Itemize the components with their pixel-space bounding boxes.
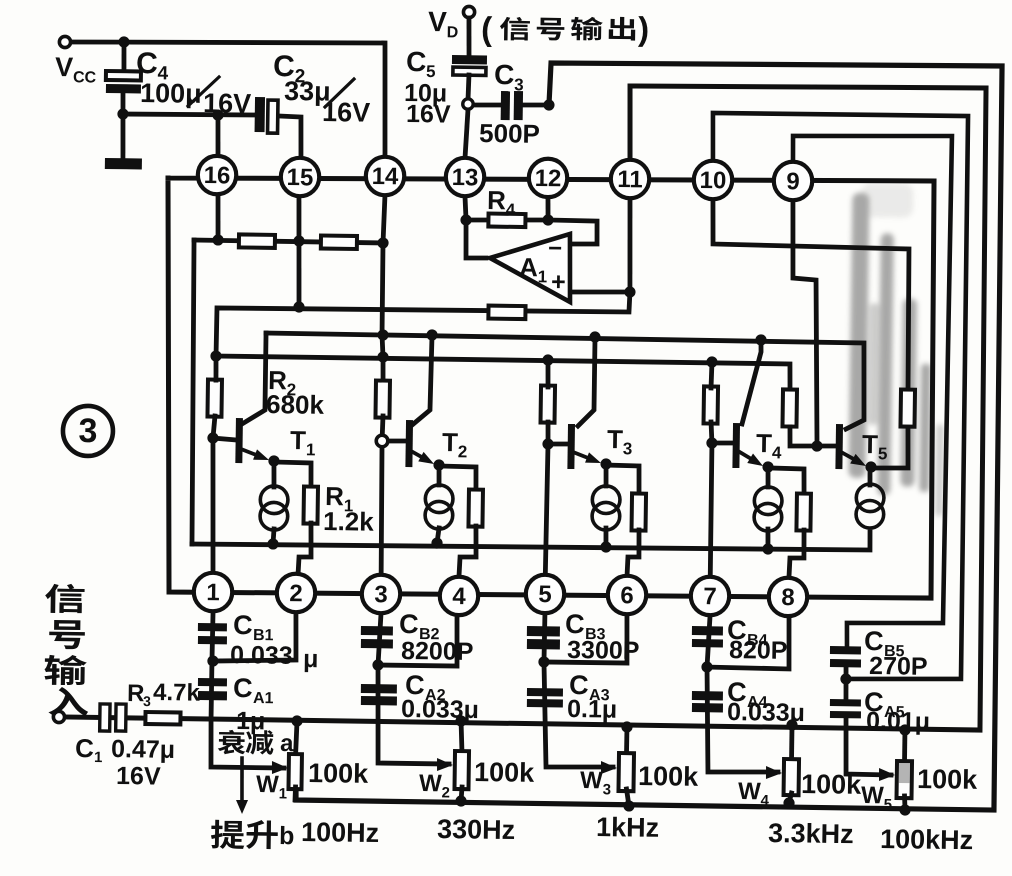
label T5: [862, 429, 888, 463]
node T5 base junction: [811, 440, 822, 451]
label R3 value: [153, 679, 201, 707]
wire VD to C5: [468, 18, 469, 56]
wire T1 base: [213, 438, 237, 440]
capacitor CB3 plate1: [527, 626, 560, 636]
wire pin6 jog: [544, 613, 628, 663]
arrow boost shaft: [241, 758, 242, 802]
label CB1 sub: [253, 627, 274, 644]
T1 emitter arrow head: [253, 449, 269, 460]
svg-text:680k: 680k: [266, 389, 325, 420]
IC pin 7: [691, 576, 730, 615]
wire emitter rail: [192, 523, 870, 554]
wire pin8 jog: [707, 616, 790, 669]
node T4 bias/rail: [706, 356, 717, 367]
transistor T3 bar: [567, 424, 575, 469]
node T3 collector/rail: [589, 331, 600, 342]
IC pin 14: [366, 157, 405, 196]
svg-text:820P: 820P: [729, 636, 788, 665]
figure number 3: [63, 406, 114, 457]
wire C3 to pin12 node: [523, 102, 549, 108]
svg-text:100k: 100k: [474, 757, 535, 788]
svg-text:3: 3: [374, 581, 388, 608]
wire T3 source to rail: [603, 528, 608, 547]
label CB3 value: [567, 636, 640, 665]
IC pin 5: [526, 574, 565, 613]
wire W2 bottom: [459, 787, 465, 801]
wire T4 bias bottom: [711, 422, 712, 443]
transistor T4 bar: [732, 423, 740, 468]
wire pin2 jog: [213, 611, 297, 662]
label CA3 value: [567, 695, 617, 724]
slash C2: [325, 79, 354, 108]
capacitor C4 top plate: [106, 71, 141, 80]
node T2 collector/rail: [426, 329, 437, 340]
capacitor CB4 plate1: [692, 626, 723, 635]
label CA3: [569, 670, 589, 700]
wire T4 emitter to source: [765, 467, 770, 487]
wire pin4 jog: [378, 615, 458, 666]
label CA2: [405, 670, 425, 700]
wire T1 collector: [242, 333, 266, 425]
label Vcc: [55, 52, 97, 87]
wire pin1 to CB1: [210, 612, 286, 768]
label input 输: [44, 655, 87, 686]
label C1 16V: [116, 762, 161, 791]
node W4 top/bus: [786, 719, 797, 730]
node W2 top/bus: [455, 715, 466, 726]
wire pin16 up: [216, 115, 220, 240]
label T1: [290, 425, 316, 459]
node pin13/R4: [460, 214, 471, 225]
label 330Hz: [437, 814, 515, 845]
svg-text:1μ: 1μ: [236, 707, 266, 735]
label paren right: [638, 10, 650, 47]
wire pin10 to T5 res: [710, 199, 910, 389]
svg-text:16V: 16V: [116, 762, 161, 791]
wire T2 emitter to source: [436, 465, 441, 485]
T5 emitter arrow: [841, 452, 853, 459]
resistor feedback: [488, 306, 525, 320]
label C2 value 16V: [322, 97, 370, 128]
resistor T2 bias body: [375, 380, 390, 417]
svg-text:0.47μ: 0.47μ: [111, 735, 175, 764]
label C3: [494, 59, 524, 94]
arrow into W2: [437, 758, 453, 771]
node W4 bottom/bus: [783, 797, 794, 808]
label C1: [75, 733, 94, 763]
label CB3: [565, 609, 585, 639]
svg-text:R: R: [127, 680, 145, 707]
label T3: [607, 424, 633, 458]
wire test node to pin13: [465, 110, 468, 158]
wire T2 collector: [411, 335, 432, 427]
wire R2 bottom: [213, 416, 215, 438]
resistor T5 emitter body: [900, 390, 915, 427]
W5 body scan shading: [899, 763, 910, 783]
node T4 emitter: [762, 461, 773, 472]
svg-text:C: C: [406, 46, 427, 77]
wire W1 bottom: [293, 787, 298, 800]
capacitor CB2 plate1: [361, 626, 393, 635]
label input 信: [45, 584, 85, 614]
capacitor C1 left plate: [100, 704, 110, 731]
label signal output 信: [500, 17, 530, 41]
svg-text:5: 5: [426, 62, 436, 81]
wire base bias rail: [216, 356, 791, 389]
svg-text:100k: 100k: [801, 769, 862, 800]
label CB2: [399, 609, 419, 639]
node CB4/CA4: [701, 661, 712, 672]
IC pin 3: [362, 575, 401, 614]
wire pin13 to A1 output: [466, 220, 487, 258]
arrow into W5: [879, 768, 895, 781]
label CB5 value: [869, 652, 928, 681]
potentiometer W2 body: [454, 751, 469, 789]
arrow into W3: [601, 761, 617, 774]
wire T5 emitter to source: [867, 467, 872, 485]
IC pin 10: [694, 160, 733, 199]
node CB3/CA3: [538, 656, 549, 667]
label CA1 sub: [253, 690, 274, 707]
label CA1: [233, 673, 253, 703]
label CB5 sub: [884, 643, 905, 660]
svg-text:0.01μ: 0.01μ: [866, 707, 930, 736]
node W5 bottom/bus: [899, 804, 910, 815]
wire T3 base: [548, 441, 569, 446]
wire ground lead: [122, 114, 123, 159]
capacitor CA4 plate2: [692, 703, 723, 712]
label 3.3kHz: [768, 818, 854, 849]
wire R4 row: [466, 219, 548, 221]
wire T2 emitter to res: [439, 466, 477, 490]
resistor R4: [488, 214, 525, 228]
node C4 bottom junction: [117, 108, 128, 119]
label W5: [861, 782, 892, 813]
capacitor C3 right plate: [514, 91, 523, 120]
label CA5 value: [866, 707, 930, 736]
svg-text:C: C: [75, 733, 94, 763]
label A1 minus: [548, 235, 562, 262]
IC pin 4: [440, 576, 479, 615]
label input 号: [49, 620, 85, 649]
label R4: [487, 185, 516, 219]
wire R1 to pin2: [298, 523, 312, 576]
capacitor CA4 plate1: [692, 691, 723, 700]
current source T5: [856, 484, 884, 528]
T1 emitter arrow: [241, 449, 255, 454]
label CA4 value: [727, 698, 805, 727]
label paren left: [481, 10, 493, 47]
label T2: [442, 427, 468, 461]
label CB4 sub: [747, 632, 768, 649]
wire T3 collector: [578, 337, 595, 426]
svg-text:1.2k: 1.2k: [323, 506, 375, 537]
wire T3 emitter to source: [603, 464, 608, 486]
node pin15/feedback: [293, 301, 304, 312]
label W1 value: [308, 758, 369, 789]
label CA4 sub: [747, 694, 768, 711]
terminal VD signal output: [463, 6, 474, 17]
svg-text:100μ: 100μ: [140, 78, 202, 109]
current source T1: [260, 486, 288, 530]
capacitor C5 bottom plate: [453, 67, 486, 75]
wire W4 top: [789, 725, 794, 761]
label 100kHz: [880, 824, 973, 855]
label CA5: [864, 687, 884, 717]
label C2: [273, 50, 306, 87]
svg-text:C: C: [233, 673, 253, 703]
node Vcc junction: [118, 36, 129, 47]
label W2: [419, 770, 450, 801]
wire W4 bottom: [789, 793, 791, 803]
wire bias rail: [194, 240, 383, 243]
IC pin 12: [529, 158, 568, 197]
svg-text:6: 6: [620, 582, 634, 609]
IC pin 2: [277, 574, 316, 613]
label input 入: [48, 687, 88, 716]
wire T4 source to rail: [765, 529, 770, 549]
label CB2 value: [401, 637, 474, 666]
label CB1 value: [230, 641, 293, 670]
node pin14/bias: [377, 237, 388, 248]
wire feedback lower: [216, 286, 630, 362]
resistor T3 bias body: [541, 385, 556, 422]
label shuaijian 衰: [218, 730, 246, 755]
node T4 collector/rail: [755, 334, 766, 345]
svg-text:100k: 100k: [917, 764, 978, 795]
wire A1 noninverting input: [571, 291, 630, 293]
potentiometer W5 body: [897, 761, 913, 798]
IC pin 1: [194, 573, 233, 612]
wire T5 bias bottom: [790, 427, 837, 447]
node T4 source/rail: [762, 543, 773, 554]
T2 emitter arrow head: [418, 452, 434, 464]
node T3 source/rail: [600, 541, 611, 552]
potentiometer W3 body: [618, 753, 634, 791]
label CA3 sub: [589, 687, 610, 704]
svg-text:11: 11: [617, 166, 643, 193]
transistor T2 bar: [405, 420, 413, 467]
label R3 sub: [143, 693, 151, 709]
T5 emitter arrow head: [850, 454, 866, 466]
svg-text:9: 9: [786, 168, 800, 195]
node W5 top/bus: [899, 724, 910, 735]
node T1 base: [207, 432, 218, 443]
node pin16/bias: [212, 234, 223, 245]
svg-text:16: 16: [203, 162, 230, 189]
node T1 source/rail: [267, 538, 278, 549]
wire test node to C3: [474, 102, 502, 108]
node W3 top/bus: [621, 721, 632, 732]
node output test point: [463, 99, 474, 110]
label W2 value: [474, 757, 535, 788]
capacitor CA5 plate1: [830, 699, 861, 706]
label C5 value 10u: [404, 79, 447, 108]
wire T4 emitter to res: [768, 468, 805, 494]
svg-text:5: 5: [538, 581, 552, 608]
potentiometer W4 body: [784, 759, 800, 795]
node W1 top/bus: [291, 715, 302, 726]
label W1: [256, 771, 287, 802]
wire W5 bottom: [902, 796, 908, 810]
label tisheng 提: [211, 820, 245, 850]
label W3 value: [638, 761, 699, 792]
label C5 value 16V: [406, 100, 451, 129]
label a: [280, 730, 294, 757]
IC pin 6: [608, 576, 647, 615]
svg-text:16V: 16V: [322, 97, 370, 128]
wire IC body loop pins: [162, 170, 937, 602]
resistor T5 bias body: [782, 389, 797, 426]
wire pin5 to CB3: [543, 611, 616, 768]
wire T3 bias top: [545, 360, 551, 387]
node pin14/wire3: [377, 351, 388, 362]
node pin15/bias: [293, 235, 304, 246]
wire CA5 to W5 wiper: [845, 718, 892, 775]
label C4: [136, 47, 169, 84]
label CB4: [727, 615, 747, 645]
current source T3: [592, 486, 620, 530]
ground bar: [105, 158, 142, 170]
capacitor C4 bottom plate: [106, 84, 141, 93]
wire T4 collector: [742, 340, 761, 425]
wire T2 bias bottom: [380, 416, 386, 441]
wire T4 base: [712, 440, 734, 445]
resistor T3 emitter body: [632, 493, 647, 530]
label 1kHz: [596, 812, 659, 843]
wire W1 top: [296, 721, 297, 756]
svg-text:1: 1: [94, 749, 103, 766]
label C5 sub: [426, 62, 436, 81]
label A1 plus: [551, 268, 566, 296]
svg-text:14: 14: [371, 163, 399, 190]
capacitor C3 left plate: [501, 91, 510, 120]
wire W3 top: [624, 727, 629, 755]
label CA1 value: [236, 707, 266, 735]
wire pin3 column: [380, 441, 383, 594]
IC pin 13: [446, 158, 485, 197]
node CB2/CA2: [372, 659, 383, 670]
label CB2 sub: [419, 626, 440, 643]
svg-text:12: 12: [534, 165, 561, 192]
capacitor C2 left plate: [255, 97, 265, 132]
svg-text:8: 8: [781, 584, 795, 611]
svg-text:3: 3: [143, 693, 151, 709]
wire C5 to test node: [466, 75, 472, 99]
svg-text:8200P: 8200P: [401, 637, 474, 666]
svg-text:0.1μ: 0.1μ: [567, 695, 617, 724]
svg-text:−: −: [548, 235, 562, 262]
label CA5 sub: [884, 704, 905, 721]
svg-text:C: C: [233, 610, 253, 640]
T3 emitter arrow head: [585, 452, 601, 463]
svg-text:+: +: [551, 268, 566, 296]
svg-text:3: 3: [78, 412, 97, 450]
capacitor CB5 plate2: [830, 659, 861, 667]
wire Vcc top rail to pin 14: [68, 39, 386, 158]
resistor R2 body: [207, 380, 222, 417]
label R1 value: [323, 506, 375, 537]
svg-text:): ): [638, 10, 650, 47]
svg-text:3.3kHz: 3.3kHz: [768, 818, 854, 849]
capacitor CB1 plate1: [198, 623, 227, 631]
wire W5 top: [902, 730, 907, 763]
svg-text:4: 4: [452, 583, 466, 610]
svg-text:16V: 16V: [203, 88, 251, 119]
wire pin13 down: [465, 196, 467, 220]
label CB4 value: [729, 636, 788, 665]
label CB3 sub: [585, 626, 606, 643]
IC pin 15: [281, 158, 320, 197]
node T2 base: [376, 435, 388, 447]
label 100Hz: [301, 817, 379, 848]
resistor R1 body: [303, 486, 318, 523]
wire pin10 to CB5/CA5 node: [705, 112, 969, 680]
wire pin9 jog to T5 base: [790, 200, 821, 446]
svg-text:b: b: [279, 822, 295, 850]
svg-text:15: 15: [286, 164, 313, 191]
wire T3 emitter to res: [606, 465, 640, 495]
label C4 value 16V: [203, 88, 251, 119]
wire T3 bias bottom: [545, 422, 550, 444]
label C2 value 33u: [284, 76, 331, 107]
slash C4: [188, 77, 219, 107]
node T2 emitter: [433, 459, 444, 470]
resistor bias right: [321, 235, 357, 249]
label R3: [127, 680, 145, 707]
capacitor CA3 plate2: [527, 699, 563, 708]
label CA2 value: [401, 695, 479, 724]
node W2 bottom/bus: [455, 795, 466, 806]
svg-text:C: C: [399, 609, 419, 639]
label signal output 号: [537, 18, 565, 41]
label b: [279, 822, 295, 850]
svg-text:330Hz: 330Hz: [437, 814, 515, 845]
node pin12/R4: [542, 214, 553, 225]
svg-text:C: C: [565, 609, 585, 639]
T4 emitter arrow: [738, 451, 750, 458]
terminal signal input: [53, 711, 64, 722]
wire T4 bias top: [709, 362, 715, 388]
node CB5/CA5: [840, 673, 851, 684]
svg-text:a: a: [280, 730, 294, 757]
label VD: [428, 6, 459, 41]
node C3/pin12 junction: [543, 99, 554, 110]
wire CB5 to CA5: [843, 667, 849, 700]
transistor T5 bar: [835, 424, 843, 469]
resistor T2 emitter body: [468, 489, 483, 526]
label A1: [519, 252, 548, 286]
IC pin 9: [774, 162, 813, 201]
node T3 bias/rail: [542, 354, 553, 365]
wire R2 top: [213, 356, 218, 380]
capacitor CA2 plate2: [361, 696, 397, 706]
wire pin5 column: [545, 444, 548, 592]
wire pin11 down: [628, 180, 631, 292]
capacitor C5 top plate: [452, 55, 487, 64]
label C5: [406, 46, 427, 77]
label W3: [580, 767, 611, 798]
wire output net C3 to W5 bottom bus: [296, 56, 1005, 810]
label W4 value: [801, 769, 862, 800]
label CB1: [233, 610, 253, 640]
svg-text:16V: 16V: [406, 100, 451, 129]
arrow into W1: [272, 761, 288, 774]
label CA2 sub: [425, 687, 446, 704]
svg-text:A1: A1: [253, 690, 274, 707]
IC pin 8: [769, 577, 808, 616]
label C4 value 100u: [140, 78, 202, 109]
